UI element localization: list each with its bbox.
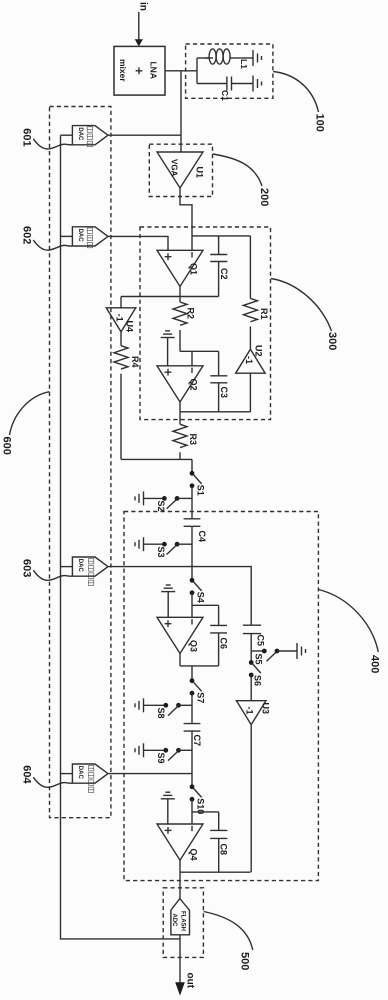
svg-text:DAC: DAC: [77, 559, 83, 573]
svg-text:ADC: ADC: [171, 914, 177, 928]
svg-text:C8: C8: [219, 844, 229, 856]
svg-text:C5: C5: [255, 635, 265, 647]
svg-text:FLASH: FLASH: [179, 911, 185, 931]
svg-text:C3: C3: [219, 387, 229, 399]
svg-text:S7: S7: [196, 692, 206, 703]
svg-text:S1: S1: [196, 485, 206, 496]
svg-text:S5: S5: [253, 654, 263, 665]
svg-text:U4: U4: [125, 321, 135, 333]
svg-text:C4: C4: [197, 531, 207, 543]
svg-text:-1: -1: [114, 314, 124, 322]
svg-text:Q2: Q2: [189, 379, 199, 391]
svg-text:R2: R2: [186, 308, 196, 320]
svg-text:DAC: DAC: [77, 766, 83, 780]
svg-text:C6: C6: [218, 638, 228, 650]
svg-text:S8: S8: [156, 708, 166, 719]
svg-text:-1: -1: [244, 356, 254, 364]
svg-text:R4: R4: [130, 356, 140, 368]
svg-text:L1: L1: [239, 59, 249, 69]
svg-text:100: 100: [314, 114, 326, 132]
svg-text:in: in: [138, 2, 149, 11]
svg-text:-1: -1: [245, 707, 255, 715]
svg-text:R3: R3: [188, 434, 198, 446]
svg-text:500: 500: [239, 952, 251, 970]
svg-text:200: 200: [258, 188, 270, 206]
svg-text:Q3: Q3: [189, 640, 199, 652]
svg-text:DAC: DAC: [77, 229, 83, 243]
svg-text:604: 604: [21, 765, 33, 784]
svg-text:S2: S2: [156, 501, 166, 512]
svg-text:S4: S4: [196, 592, 206, 603]
svg-text:DAC: DAC: [77, 127, 83, 141]
svg-text:601: 601: [21, 128, 33, 146]
svg-text:300: 300: [326, 332, 338, 350]
svg-text:C1: C1: [220, 90, 230, 101]
svg-text:400: 400: [369, 655, 381, 673]
svg-text:out: out: [185, 973, 196, 989]
svg-text:600: 600: [1, 437, 13, 455]
svg-text:mixer: mixer: [118, 59, 128, 82]
svg-text:S3: S3: [156, 547, 166, 558]
svg-text:U3: U3: [260, 703, 270, 715]
svg-text:S6: S6: [253, 675, 263, 686]
svg-text:LNA: LNA: [149, 62, 159, 79]
svg-text:C2: C2: [219, 268, 229, 280]
svg-text:C7: C7: [192, 735, 202, 747]
svg-text:Q1: Q1: [189, 263, 199, 275]
svg-text:U1: U1: [195, 167, 205, 179]
svg-text:603: 603: [21, 559, 33, 577]
svg-text:602: 602: [21, 226, 33, 244]
svg-text:S9: S9: [156, 753, 166, 764]
svg-text:VGA: VGA: [169, 159, 178, 177]
svg-text:Q4: Q4: [189, 849, 199, 861]
svg-text:R1: R1: [259, 308, 269, 320]
svg-text:U2: U2: [254, 345, 264, 357]
